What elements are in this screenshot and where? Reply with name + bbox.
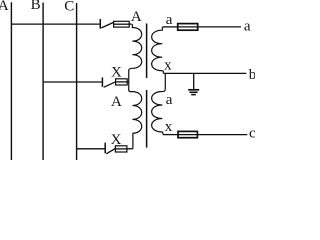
fuse Fc (secondary phase c fuse): [178, 131, 197, 137]
bus A (phase A vertical bus): [10, 2, 12, 160]
wire: bus C to switch S3: [77, 148, 105, 150]
svg-text:A: A: [0, 0, 9, 14]
transformer T1 core: [146, 24, 148, 78]
switch S3 blade: [106, 148, 115, 153]
switch S3 fixed contact: [104, 143, 106, 154]
svg-text:A: A: [111, 94, 122, 110]
svg-text:A: A: [131, 9, 142, 25]
wire: fuse Fc to terminal c: [197, 134, 247, 136]
wire: fuse Fa to terminal a: [198, 26, 241, 28]
svg-text:a: a: [166, 92, 173, 108]
wire: T1 secondary a to fuse Fa: [163, 26, 178, 28]
svg-text:x: x: [164, 58, 172, 74]
wire: T1.x / T2.a common to terminal b: [163, 72, 246, 74]
svg-text:b: b: [249, 67, 255, 83]
fuse Fa (secondary phase a fuse): [178, 24, 198, 31]
wire: bus B to switch S2: [43, 81, 102, 83]
switch S2 blade: [104, 82, 116, 88]
bus C (phase C vertical bus): [76, 3, 78, 160]
svg-text:B: B: [31, 0, 41, 13]
switch S1 fixed contact: [99, 19, 101, 29]
transformer T1 secondary winding: [152, 27, 164, 74]
transformer T1 primary winding: [129, 24, 142, 70]
svg-text:x: x: [165, 119, 173, 135]
svg-text:X: X: [111, 64, 122, 80]
transformer T2 secondary winding: [152, 89, 166, 135]
ground symbol: [188, 89, 199, 91]
wire: T2.x to fuse Fc: [163, 134, 178, 136]
transformer T2 core: [146, 90, 148, 148]
wire: fuse F2 to junction: [127, 81, 129, 83]
wire: fuse F1 to T1 primary terminal A: [129, 23, 131, 25]
wire: bus A to switch S1: [11, 23, 99, 25]
bus B (phase B vertical bus): [42, 3, 44, 161]
fuse F1 (phase A primary fuse): [114, 21, 130, 27]
wire: junction T1.X / T2.A vertical link: [128, 70, 130, 90]
wire: T2.X to fuse F3: [127, 148, 133, 150]
switch S2 fixed contact: [101, 77, 103, 86]
svg-text:a: a: [244, 18, 251, 34]
svg-text:a: a: [166, 12, 173, 28]
svg-text:c: c: [249, 126, 255, 142]
fuse F3 (phase C primary fuse): [115, 146, 127, 152]
transformer T2 primary winding: [129, 90, 142, 149]
fuse F2 (phase B primary fuse): [116, 79, 128, 85]
ground stub on b wire: [193, 73, 195, 89]
switch S1 blade: [101, 22, 113, 28]
wire: b wire to T2 secondary a: [164, 73, 166, 88]
svg-text:C: C: [64, 0, 74, 15]
